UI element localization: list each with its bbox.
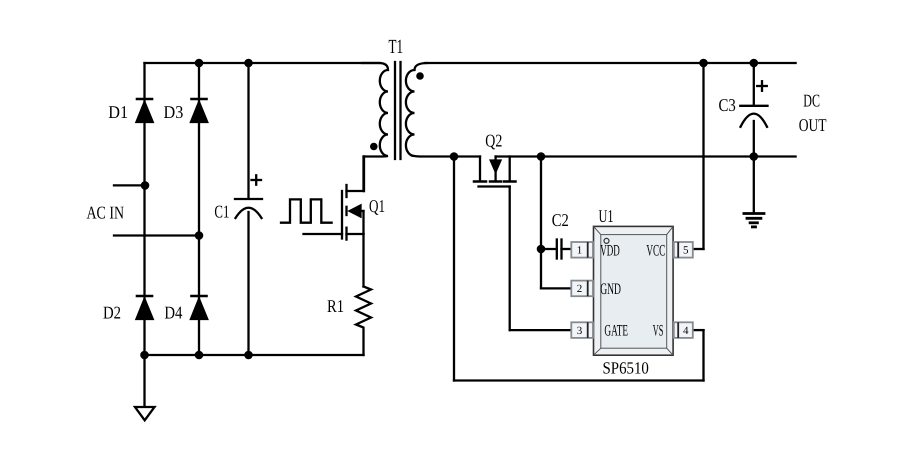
- svg-text:C2: C2: [552, 210, 569, 230]
- svg-text:C1: C1: [214, 202, 229, 222]
- svg-text:D2: D2: [103, 303, 121, 323]
- svg-text:VCC: VCC: [646, 243, 665, 260]
- svg-text:GND: GND: [600, 281, 621, 298]
- svg-text:2: 2: [577, 283, 583, 295]
- svg-text:VDD: VDD: [600, 243, 620, 260]
- svg-text:VS: VS: [653, 322, 664, 339]
- svg-text:D1: D1: [108, 102, 128, 122]
- svg-text:Q1: Q1: [369, 196, 385, 216]
- svg-text:AC IN: AC IN: [87, 203, 125, 223]
- svg-text:1: 1: [577, 245, 583, 257]
- svg-text:OUT: OUT: [799, 115, 827, 135]
- svg-text:R1: R1: [327, 296, 344, 316]
- svg-text:DC: DC: [803, 90, 820, 110]
- svg-text:Q2: Q2: [485, 131, 502, 151]
- svg-text:U1: U1: [599, 206, 614, 226]
- svg-text:5: 5: [683, 245, 689, 257]
- svg-text:D4: D4: [164, 303, 182, 323]
- svg-text:C3: C3: [719, 95, 736, 115]
- svg-text:4: 4: [683, 325, 689, 337]
- svg-text:3: 3: [577, 325, 583, 337]
- svg-text:T1: T1: [389, 36, 404, 58]
- svg-text:D3: D3: [164, 102, 184, 122]
- svg-text:SP6510: SP6510: [603, 358, 649, 377]
- svg-text:GATE: GATE: [604, 322, 628, 339]
